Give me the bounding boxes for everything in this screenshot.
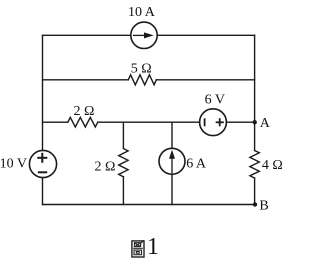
wire row2 right segment bbox=[156, 79, 254, 81]
wire branch2 vertical bottom bbox=[171, 174, 173, 204]
wire bottom bbox=[43, 204, 256, 206]
wire row3 right segment bbox=[226, 121, 254, 123]
current source I1 10A bbox=[131, 22, 157, 48]
wire left vertical bottom bbox=[42, 178, 44, 205]
resistor R 2ohm vertical bbox=[119, 149, 128, 177]
wire right vertical top bbox=[254, 35, 256, 150]
svg-text:6 A: 6 A bbox=[186, 157, 207, 172]
svg-text:A: A bbox=[260, 116, 271, 131]
wire row3 middle segment bbox=[98, 121, 200, 123]
voltage source V1 10V bbox=[29, 150, 56, 177]
node A dot bbox=[253, 120, 257, 124]
wire row2 left segment bbox=[43, 79, 129, 81]
wire branch2 vertical top bbox=[171, 122, 173, 148]
caption figure glyph bbox=[132, 241, 144, 257]
wire top left segment bbox=[43, 34, 131, 36]
resistor R 2ohm horizontal bbox=[68, 117, 98, 127]
resistor R 5ohm bbox=[128, 75, 156, 85]
svg-text:2 Ω: 2 Ω bbox=[95, 159, 116, 174]
wire top right segment bbox=[157, 34, 254, 36]
wire left vertical top bbox=[42, 35, 44, 150]
svg-text:10 V: 10 V bbox=[0, 157, 27, 172]
node B dot bbox=[253, 202, 257, 206]
resistor R 4ohm vertical bbox=[250, 151, 259, 179]
current source I2 6A bbox=[159, 148, 185, 174]
svg-text:B: B bbox=[259, 198, 268, 213]
svg-text:1: 1 bbox=[147, 234, 159, 260]
svg-text:6 V: 6 V bbox=[205, 93, 225, 108]
wire row3 left segment bbox=[43, 121, 68, 123]
svg-text:5 Ω: 5 Ω bbox=[131, 62, 152, 77]
svg-text:2 Ω: 2 Ω bbox=[74, 104, 95, 119]
wire right vertical bottom bbox=[254, 178, 256, 204]
voltage source V2 6V bbox=[200, 109, 227, 136]
svg-text:10 A: 10 A bbox=[128, 5, 156, 20]
wire branch1 vertical top bbox=[122, 122, 124, 148]
svg-text:4 Ω: 4 Ω bbox=[262, 158, 283, 173]
wire branch1 vertical bottom bbox=[122, 177, 124, 205]
